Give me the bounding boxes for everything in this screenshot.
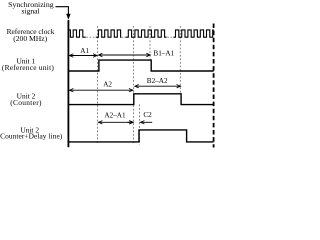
reference clock waveform burst 4 — [173, 30, 213, 37]
dashed guide x=133.9 (A2) — [133, 26, 135, 145]
label: Unit 2 (Counter+Delay line) — [0, 126, 63, 141]
svg-text:(Counter): (Counter) — [10, 98, 42, 107]
dashed right edge line x=213.6 — [213, 24, 215, 148]
svg-text:(200 MHz): (200 MHz) — [13, 34, 47, 43]
dimension arrow A2-A1 (double headed) — [98, 121, 133, 124]
svg-text:B1–A1: B1–A1 — [153, 49, 174, 57]
dimension arrow A1 (double headed) — [69, 54, 97, 57]
svg-text:A1: A1 — [80, 47, 89, 55]
svg-text:B2–A2: B2–A2 — [147, 77, 168, 85]
svg-text:A2–A1: A2–A1 — [104, 112, 126, 120]
reference clock waveform burst 2 — [96, 30, 122, 37]
dimension arrow B1-A1 (double headed) — [98, 53, 150, 56]
unit 2 counter waveform — [68, 94, 213, 105]
svg-text:C2: C2 — [143, 111, 152, 119]
clock gap dashes 3 — [167, 36, 172, 38]
label: Unit 2 (Counter) — [10, 92, 42, 107]
clock gap dashes 2 — [122, 36, 126, 38]
dimension arrow C2 left part (points right) — [127, 121, 133, 124]
dimension arrow B2-A2 (double headed) — [135, 85, 181, 88]
label: Reference clock (200 MHz) — [7, 27, 55, 43]
dimension arrow C2 right part (points left) — [140, 121, 152, 124]
reference clock waveform burst 1 — [68, 30, 85, 37]
dashed guide x=97.6 (A1) — [97, 26, 99, 145]
dashed guide x=149.9 (B1) — [149, 26, 151, 59]
label: Unit 1 (Reference unit) — [2, 57, 55, 72]
sync pointer arrow — [56, 7, 71, 20]
sync signal vertical line — [67, 20, 69, 147]
unit 1 waveform — [68, 60, 213, 71]
label: Synchronizing signal — [8, 0, 54, 15]
reference clock waveform burst 3 — [126, 30, 167, 37]
svg-text:signal: signal — [22, 7, 40, 16]
svg-text:(Reference unit): (Reference unit) — [2, 63, 55, 72]
svg-text:A2: A2 — [103, 81, 112, 89]
dashed guide x=141.9 (C2 delayed edge) — [139, 105, 141, 145]
dashed guide x=181.4 (B2) — [179, 26, 181, 93]
unit 2 counter+delay waveform — [68, 130, 213, 142]
dimension arrow A2 (double headed) — [69, 89, 132, 92]
svg-text:(Counter+Delay line): (Counter+Delay line) — [0, 132, 63, 141]
clock gap dashes 1 — [86, 36, 94, 38]
